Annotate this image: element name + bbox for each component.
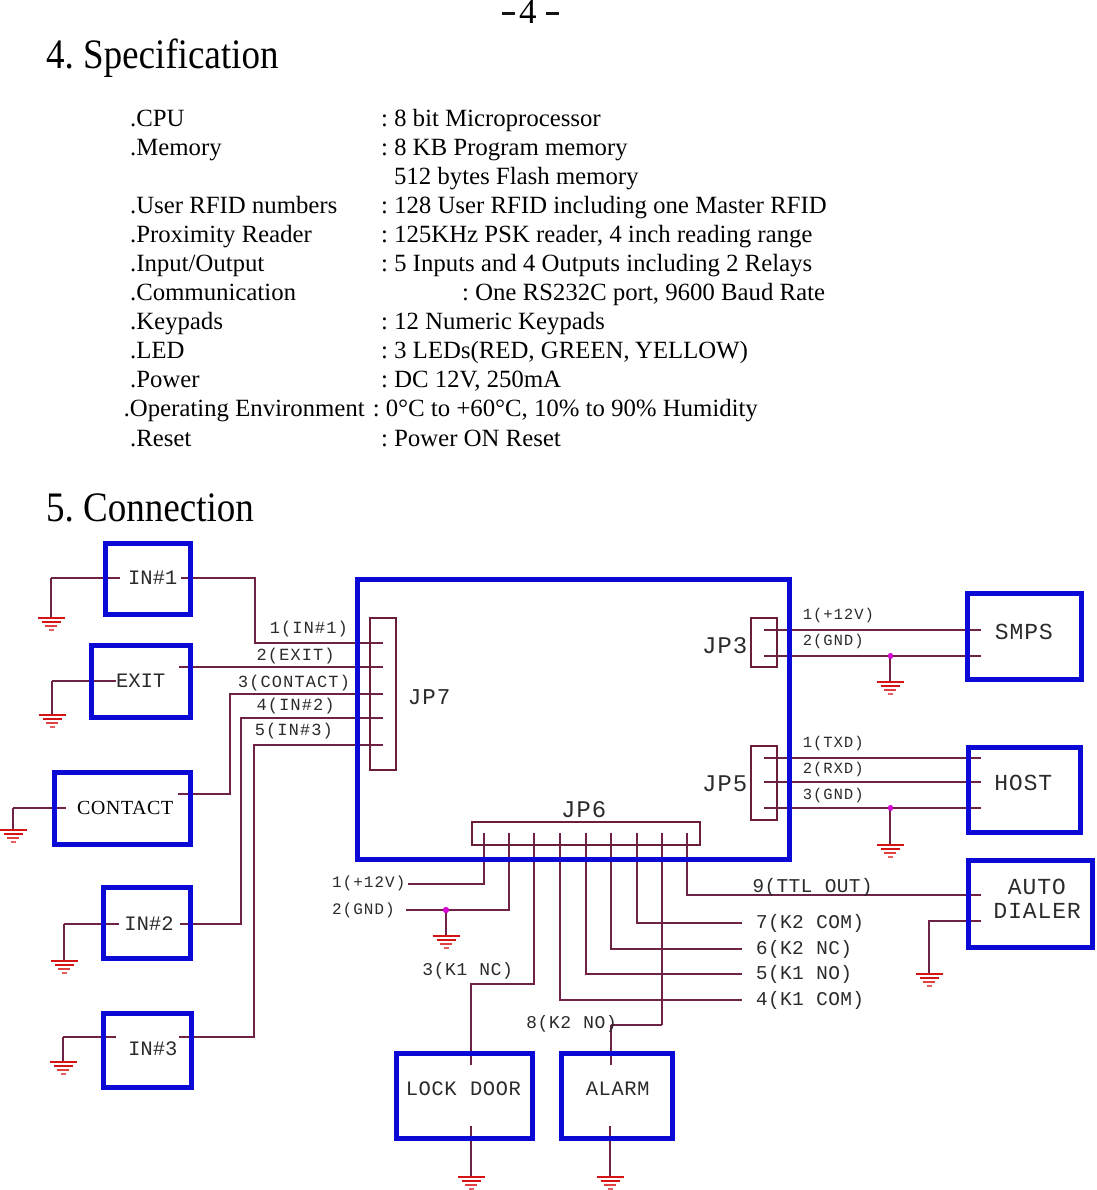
wire JP6 pin8 drop bbox=[661, 833, 663, 1025]
wire JP6 pin2 horizontal bbox=[406, 909, 510, 911]
box LOCK DOOR bbox=[394, 1051, 535, 1141]
ground ALARM bbox=[596, 1176, 624, 1190]
label pin 4(K1 COM) bbox=[756, 991, 864, 1011]
connector JP7 bbox=[369, 617, 397, 771]
wire JP6 pin8 horizontal bbox=[611, 1024, 662, 1026]
wire JP6 pin5 drop bbox=[585, 833, 587, 974]
node HOST GND junction bbox=[888, 805, 894, 811]
ground IN#3 bbox=[49, 1061, 77, 1077]
wire JP6 pin9 TTL OUT to AUTO DIALER bbox=[686, 894, 981, 896]
wire IN#2 right bbox=[180, 923, 242, 925]
spec list bbox=[0, 0, 1, 1]
wire JP6 pin3 drop bbox=[533, 833, 535, 984]
wire LOCK DOOR top drop bbox=[470, 984, 472, 1065]
wire IN#1 right bbox=[181, 577, 256, 579]
connector JP5 bbox=[750, 745, 778, 821]
wire AUTO DIALER ground horizontal bbox=[928, 920, 981, 922]
label pin 2(GND) JP3 bbox=[803, 634, 865, 650]
wire LOCK DOOR bottom drop bbox=[470, 1126, 472, 1177]
box EXIT bbox=[89, 643, 193, 720]
label DIALER bbox=[993, 901, 1081, 924]
node JP6 GND junction bbox=[443, 907, 449, 913]
ground CONTACT bbox=[0, 829, 27, 845]
ground LOCK DOOR bbox=[457, 1176, 485, 1190]
label IN#1 bbox=[128, 570, 177, 591]
wire JP6 pin6 horizontal bbox=[610, 948, 742, 950]
wire JP6 pin7 drop bbox=[636, 833, 638, 923]
label pin 7(K2 COM) bbox=[756, 914, 864, 934]
wire AUTO DIALER ground drop bbox=[928, 921, 930, 974]
wire JP6 pin3 horizontal bbox=[470, 983, 535, 985]
wire JP6 pin1 horizontal bbox=[408, 883, 485, 885]
ground AUTO DIALER bbox=[915, 973, 943, 989]
label pin 6(K2 NC) bbox=[756, 940, 852, 960]
wire IN#3 riser bbox=[253, 745, 255, 1038]
heading 4. Specification bbox=[46, 34, 278, 76]
label pin 8(K2 NO) bbox=[526, 1015, 617, 1033]
label SMPS bbox=[995, 622, 1054, 645]
label pin 4(IN#2) bbox=[257, 698, 336, 715]
wire JP7 pin2 from EXIT bbox=[179, 666, 383, 668]
page number bbox=[519, 0, 537, 29]
wire JP7 pin4 bbox=[240, 717, 383, 719]
box IN#1 bbox=[103, 541, 193, 617]
label CONTACT bbox=[77, 798, 174, 818]
label pin 5(K1 NO) bbox=[756, 965, 852, 985]
wire IN#3 left bbox=[63, 1036, 116, 1038]
label pin 2(GND) JP6 bbox=[332, 902, 396, 918]
wire IN#1 ground drop bbox=[50, 578, 52, 618]
label pin 3(CONTACT) bbox=[238, 675, 351, 692]
wire JP6 pin7 horizontal bbox=[636, 922, 742, 924]
label JP3 bbox=[702, 636, 748, 660]
ground HOST bbox=[876, 844, 904, 860]
wire EXIT left bbox=[52, 680, 116, 682]
label IN#2 bbox=[124, 916, 173, 937]
box CONTACT bbox=[52, 770, 193, 847]
box HOST bbox=[966, 745, 1083, 835]
label pin 9(TTL OUT) bbox=[752, 878, 873, 898]
wire JP3 pin1 to SMPS bbox=[764, 629, 981, 631]
ground IN#2 bbox=[50, 960, 78, 976]
wire CONTACT right bbox=[178, 793, 231, 795]
wire JP7 pin5 bbox=[253, 744, 383, 746]
label HOST bbox=[994, 773, 1053, 796]
label pin 1(TXD) bbox=[803, 736, 865, 752]
ground SMPS bbox=[876, 681, 904, 697]
label pin 1(IN#1) bbox=[270, 621, 349, 638]
box SMPS bbox=[965, 591, 1084, 682]
label LOCK DOOR bbox=[406, 1081, 522, 1102]
wire JP6 pin4 drop bbox=[559, 833, 561, 1000]
ground EXIT bbox=[38, 714, 66, 730]
label JP5 bbox=[702, 774, 748, 798]
label pin 1(+12V) JP6 bbox=[332, 875, 406, 891]
wire JP5 pin2 RXD to HOST bbox=[764, 781, 981, 783]
wire JP3 pin2 to SMPS bbox=[764, 655, 981, 657]
connector JP3 bbox=[750, 617, 778, 668]
box IN#3 bbox=[101, 1011, 194, 1090]
wire IN#1 riser to JP7 pin1 bbox=[254, 578, 256, 644]
wire IN#1 left bbox=[51, 577, 120, 579]
wire CONTACT ground drop bbox=[12, 808, 14, 829]
label pin 2(EXIT) bbox=[257, 648, 336, 665]
box main controller bbox=[355, 577, 792, 862]
wire JP6-2 ground drop bbox=[445, 910, 447, 936]
wire HOST ground drop bbox=[889, 808, 891, 845]
label JP7 bbox=[408, 687, 452, 710]
wire IN#2 ground drop bbox=[63, 924, 65, 961]
label AUTO bbox=[1008, 877, 1067, 900]
wire ALARM bottom drop bbox=[609, 1126, 611, 1177]
heading 5. Connection bbox=[46, 487, 254, 529]
wire IN#3 right bbox=[179, 1036, 255, 1038]
box AUTO DIALER bbox=[966, 858, 1095, 950]
wire ALARM top drop bbox=[610, 1025, 612, 1065]
ground IN#1 bbox=[37, 617, 65, 633]
box ALARM bbox=[559, 1051, 675, 1141]
wire JP6 pin1 drop bbox=[483, 833, 485, 885]
wire IN#2 left bbox=[64, 923, 119, 925]
wire JP6 pin5 horizontal bbox=[585, 973, 742, 975]
box IN#2 bbox=[101, 885, 193, 961]
wire JP6 pin6 drop bbox=[610, 833, 612, 949]
node SMPS GND junction bbox=[888, 653, 894, 659]
wire SMPS ground drop bbox=[889, 656, 891, 682]
label IN#3 bbox=[128, 1041, 177, 1062]
wire JP5 pin3 GND to HOST bbox=[764, 807, 981, 809]
wire IN#3 ground drop bbox=[62, 1037, 64, 1062]
label ALARM bbox=[586, 1081, 650, 1102]
label pin 3(GND) JP5 bbox=[803, 788, 865, 804]
wire CONTACT riser bbox=[229, 694, 231, 795]
ground JP6 pin2 bbox=[432, 935, 460, 951]
wire JP5 pin1 TXD to HOST bbox=[764, 757, 981, 759]
label pin 2(RXD) bbox=[803, 762, 865, 778]
wire EXIT ground drop bbox=[51, 681, 53, 715]
wire JP7 pin1 bbox=[254, 642, 383, 644]
wire JP6 pin2 drop bbox=[508, 833, 510, 910]
label pin 3(K1 NC) bbox=[422, 962, 513, 980]
label JP6 bbox=[561, 800, 607, 824]
wire IN#2 riser bbox=[240, 718, 242, 925]
label pin 1(+12V) JP3 bbox=[803, 608, 875, 624]
label EXIT bbox=[116, 673, 165, 694]
wire JP6 pin4 horizontal bbox=[559, 999, 742, 1001]
label pin 5(IN#3) bbox=[255, 723, 334, 740]
wire CONTACT left bbox=[13, 807, 66, 809]
connector JP6 bbox=[471, 821, 701, 846]
wire JP6 pin9 drop bbox=[686, 833, 688, 895]
wire JP7 pin3 bbox=[229, 693, 383, 695]
